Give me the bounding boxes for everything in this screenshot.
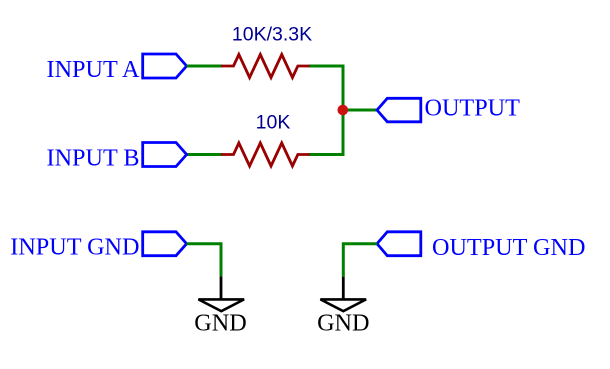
svg-text:OUTPUT: OUTPUT [425,95,521,122]
svg-text:10K: 10K [256,111,291,133]
port OUTPUT GND [377,232,421,256]
svg-text:GND: GND [194,310,246,337]
svg-text:INPUT B: INPUT B [47,144,140,171]
wire [187,244,221,277]
port INPUT A [143,54,187,78]
resistor R1 [221,55,310,78]
port INPUT B [143,143,187,167]
ground [198,299,244,311]
svg-text:INPUT GND: INPUT GND [10,234,139,261]
resistor R2 [221,143,310,166]
wire [187,153,222,156]
svg-text:OUTPUT GND: OUTPUT GND [432,234,585,261]
port OUTPUT [377,98,421,122]
wire [187,65,222,68]
wire (gnd lead) [342,277,345,300]
port INPUT GND [143,232,187,256]
svg-text:INPUT A: INPUT A [47,56,140,83]
ground [320,299,366,311]
wire (gnd lead) [220,276,223,299]
wire [343,109,377,112]
svg-text:10K/3.3K: 10K/3.3K [232,24,312,46]
svg-text:GND: GND [317,309,369,336]
wire [309,66,344,155]
wire [343,244,377,277]
junction [338,105,349,116]
